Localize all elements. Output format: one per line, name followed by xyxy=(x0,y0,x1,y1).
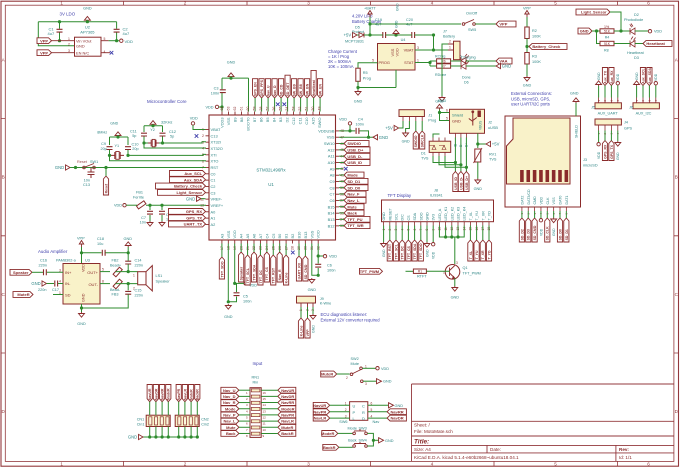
svg-text:TFT_DC: TFT_DC xyxy=(401,246,405,260)
ground J9 xyxy=(310,314,316,319)
svg-text:GND: GND xyxy=(552,228,556,236)
label VDD TFT xyxy=(432,251,436,259)
power GND at Y1 xyxy=(110,122,118,126)
wire q1 emitter xyxy=(454,278,456,286)
svg-text:VDD: VDD xyxy=(539,197,543,205)
label Heartbeat text xyxy=(627,51,645,55)
label VDD J6 AUX_I2C xyxy=(654,73,658,81)
svg-text:A11: A11 xyxy=(328,154,335,159)
wire y2 to XT32O xyxy=(144,143,206,148)
capacitor network CN1 body xyxy=(146,415,170,426)
svg-text:TFT_WR: TFT_WR xyxy=(347,223,363,228)
label J9 xyxy=(320,297,324,301)
svg-text:Reset: Reset xyxy=(77,160,88,164)
label SW1 xyxy=(90,160,98,164)
svg-text:VSS: VSS xyxy=(552,197,556,205)
svg-text:1: 1 xyxy=(60,462,63,467)
svg-text:SD_D1: SD_D1 xyxy=(347,179,361,184)
wire to gnd sw xyxy=(373,439,378,441)
J7 pins xyxy=(448,40,454,50)
svg-text:DAT3/CD: DAT3/CD xyxy=(527,189,531,205)
label R2 xyxy=(532,29,537,33)
pin stub EN xyxy=(52,52,75,54)
junction xyxy=(177,435,180,438)
global label Back xyxy=(221,431,239,437)
vertical global label SD_D1 xyxy=(564,218,569,242)
svg-text:Sheet: /: Sheet: / xyxy=(414,423,431,428)
wire to R1 xyxy=(406,270,414,272)
connector J5 AUX_UART xyxy=(595,103,621,109)
global label Aux_SDA xyxy=(170,177,206,183)
svg-text:3: 3 xyxy=(307,1,310,6)
svg-text:C6: C6 xyxy=(330,198,335,203)
svg-text:Mute: Mute xyxy=(347,204,357,209)
power VDD circle FB1 xyxy=(123,204,126,207)
label VDD GPS xyxy=(597,151,601,159)
label GND microSD xyxy=(552,228,556,236)
wire pin xyxy=(285,244,287,256)
ground microSD xyxy=(551,218,557,223)
svg-text:D3: D3 xyxy=(634,56,639,60)
U1 top pins xyxy=(220,107,323,131)
svg-text:J4: J4 xyxy=(624,121,628,125)
gnd arrow SW6 xyxy=(389,403,394,408)
label GND pin31 xyxy=(308,288,317,292)
svg-text:T_XR: T_XR xyxy=(481,211,485,221)
svg-text:D: D xyxy=(362,416,365,421)
svg-text:2: 2 xyxy=(68,42,70,46)
svg-text:GND: GND xyxy=(186,196,195,201)
ground C8 xyxy=(159,221,165,226)
label VBUS xyxy=(479,120,483,130)
label SW2 xyxy=(351,357,359,361)
svg-text:SD_D0: SD_D0 xyxy=(347,185,361,190)
svg-text:Heartbeat: Heartbeat xyxy=(312,79,316,96)
ground C7 xyxy=(147,221,153,226)
svg-text:CLK: CLK xyxy=(546,197,550,205)
wire rn1 right xyxy=(261,414,278,416)
vertical global label Speaker xyxy=(239,252,244,282)
ground J5 AUX_UART xyxy=(596,81,602,86)
svg-text:VDD: VDD xyxy=(539,228,543,236)
wire pin xyxy=(253,244,255,253)
svg-text:VPP: VPP xyxy=(40,38,48,43)
label D5 xyxy=(355,26,360,30)
label C14 xyxy=(135,259,142,263)
label RChrg xyxy=(435,55,445,59)
svg-text:6: 6 xyxy=(446,109,448,113)
svg-text:Q1: Q1 xyxy=(463,266,468,270)
wire row48 xyxy=(339,130,355,132)
J1 pins xyxy=(403,117,422,122)
svg-text:R4: R4 xyxy=(605,36,610,40)
svg-text:53: 53 xyxy=(292,107,296,111)
svg-text:62: 62 xyxy=(233,107,237,111)
capacitor C2 xyxy=(114,29,120,32)
capacitor C6 xyxy=(315,264,321,267)
U2 pin numbers xyxy=(68,37,106,54)
svg-text:B12: B12 xyxy=(328,223,335,228)
pin stub VOut xyxy=(101,40,109,42)
svg-text:B2: B2 xyxy=(290,234,295,239)
vertical global label SWDIO net xyxy=(413,131,418,149)
label GND J9 xyxy=(312,325,316,333)
wire r3 gnd xyxy=(526,64,528,76)
label C6 xyxy=(327,264,332,268)
svg-text:C2: C2 xyxy=(211,184,216,189)
global label BackR xyxy=(278,431,296,437)
pin numbers U4 xyxy=(372,46,419,63)
svg-text:DAT0: DAT0 xyxy=(559,196,563,205)
capacitor C7 xyxy=(147,211,153,214)
svg-text:13: 13 xyxy=(263,409,267,413)
wire rail to BOOT0 xyxy=(248,78,250,111)
svg-text:Nav: Nav xyxy=(373,420,380,424)
wire c8 stem xyxy=(161,205,163,210)
svg-text:XT32I: XT32I xyxy=(211,140,221,145)
wire C1 top xyxy=(59,22,61,29)
svg-text:Charging: Charging xyxy=(461,56,476,60)
svg-text:Photodiode: Photodiode xyxy=(624,18,643,22)
vertical global label USB_D- net xyxy=(458,172,463,192)
svg-text:54: 54 xyxy=(285,107,289,111)
svg-text:B: B xyxy=(675,175,678,180)
wire sw6 right xyxy=(368,411,387,413)
label C18 xyxy=(97,237,104,241)
svg-text:IN-: IN- xyxy=(65,281,71,286)
svg-text:6: 6 xyxy=(202,159,204,163)
label RDone xyxy=(435,73,446,77)
no-connect top 2 xyxy=(283,103,287,107)
wire sw6 left xyxy=(330,411,350,413)
power GND audio top xyxy=(124,237,133,241)
svg-text:4: 4 xyxy=(431,462,434,467)
svg-text:NavUR: NavUR xyxy=(148,388,152,400)
svg-text:NavUR: NavUR xyxy=(313,403,326,408)
wire fb3 to spk xyxy=(116,283,138,285)
svg-text:60: 60 xyxy=(246,107,250,111)
global label TFT_PU xyxy=(344,216,370,222)
svg-text:T_XL: T_XL xyxy=(469,250,473,259)
svg-text:CMD: CMD xyxy=(533,196,537,205)
global label NavRR sw6 xyxy=(387,409,406,415)
ground between caps xyxy=(393,30,399,35)
speaker LS1 xyxy=(138,266,153,291)
global label NavDR xyxy=(278,393,296,399)
capacitor network CN2 body xyxy=(175,415,199,426)
resistor R7 xyxy=(437,64,451,68)
svg-text:1: 1 xyxy=(60,1,63,6)
wire gnd stem audio xyxy=(127,247,129,253)
wire c19 in xyxy=(370,34,383,36)
wire sw3 out xyxy=(367,433,373,440)
svg-text:T_YU: T_YU xyxy=(475,211,479,221)
wire rn1 left xyxy=(239,389,250,391)
global label Mode xyxy=(221,406,239,412)
svg-text:GND: GND xyxy=(635,72,639,80)
wire d1 b1 xyxy=(433,156,455,163)
label C4 xyxy=(358,118,363,122)
svg-text:SWDIO: SWDIO xyxy=(347,141,361,146)
capacitor C9 xyxy=(107,147,113,150)
junction xyxy=(161,141,164,144)
label Nav xyxy=(373,420,380,424)
junction xyxy=(454,161,457,164)
wire c4 right xyxy=(360,131,369,137)
wire c5 gnd xyxy=(228,297,236,302)
wire pin xyxy=(339,206,344,208)
junction xyxy=(367,136,370,139)
svg-text:58: 58 xyxy=(259,107,263,111)
vertical global label VPP j9 xyxy=(305,318,310,338)
wire shield gnd xyxy=(575,103,577,116)
label GND J1 xyxy=(402,140,410,144)
global label NavLR xyxy=(278,418,296,424)
ground audio top xyxy=(125,242,131,247)
svg-text:C16: C16 xyxy=(40,259,47,263)
wire c10 to y1 xyxy=(127,150,129,155)
svg-text:RTFT: RTFT xyxy=(417,275,427,279)
diode D5 Protect xyxy=(359,33,364,38)
svg-text:VDD: VDD xyxy=(329,255,337,259)
svg-text:Ferrite: Ferrite xyxy=(133,196,144,200)
wire cn top xyxy=(190,402,192,416)
label J4 xyxy=(624,121,628,125)
label 51K in R8 xyxy=(604,42,611,46)
svg-text:5: 5 xyxy=(554,462,557,467)
svg-text:Title:: Title: xyxy=(414,439,429,446)
transistor Q1 TFT_PWM xyxy=(445,265,460,280)
svg-text:Shield: Shield xyxy=(452,113,463,118)
junction xyxy=(142,141,145,144)
wire pin xyxy=(339,225,344,227)
wire c15 gnd xyxy=(82,294,129,308)
svg-text:J5: J5 xyxy=(591,106,595,110)
resistor network RN1 body xyxy=(250,388,261,438)
junction xyxy=(317,274,320,277)
U1 left pins 1-16 xyxy=(200,127,224,227)
wire usb dm down xyxy=(460,138,462,172)
svg-text:GND: GND xyxy=(426,212,430,221)
ground J2 top xyxy=(437,104,443,109)
svg-text:Back: Back xyxy=(347,211,357,216)
wire cn bottom xyxy=(149,427,151,438)
vertical global label UART_RX xyxy=(296,256,301,281)
wire GPS_EN to pin xyxy=(254,98,256,112)
wire pin31 vss xyxy=(312,244,318,276)
svg-text:Bead-: Bead- xyxy=(110,288,121,292)
global label TFT_WR xyxy=(344,223,370,229)
wire c9 top xyxy=(109,137,111,145)
svg-text:J6: J6 xyxy=(629,106,633,110)
wire pin xyxy=(339,193,344,195)
svg-text:TFT_SDO: TFT_SDO xyxy=(419,243,423,259)
svg-text:On/Off: On/Off xyxy=(466,12,478,16)
svg-text:A1: A1 xyxy=(211,216,216,221)
svg-text:4: 4 xyxy=(59,280,61,284)
wire pin xyxy=(259,244,261,256)
vertical global label USB_ID net xyxy=(453,172,458,192)
label VDD sensor xyxy=(654,30,662,34)
svg-text:Aux_TX: Aux_TX xyxy=(603,70,607,84)
svg-text:GPS_RX: GPS_RX xyxy=(186,209,203,214)
wire pin xyxy=(266,244,268,253)
svg-text:GND: GND xyxy=(227,61,236,65)
svg-text:SW_B9: SW_B9 xyxy=(293,84,297,96)
svg-text:C13: C13 xyxy=(83,183,90,187)
wire rn1 right xyxy=(261,389,278,391)
connector J9 K-Wire xyxy=(297,296,316,303)
wire d2 to vdd xyxy=(635,30,648,32)
wire pin xyxy=(339,161,344,163)
svg-text:T_XL: T_XL xyxy=(469,212,473,221)
svg-text:R: R xyxy=(362,410,365,415)
vertical global label TFT_DC net xyxy=(400,240,405,261)
vertical global label TFT_SDA xyxy=(251,252,256,282)
global label Nav_L xyxy=(221,418,239,424)
wire pin32 vdd xyxy=(317,244,319,257)
wire u3 gnd xyxy=(81,304,83,312)
wire tft touch xyxy=(488,226,490,241)
svg-text:GND: GND xyxy=(385,439,394,443)
svg-text:8: 8 xyxy=(102,280,104,284)
global label VPP pin1 xyxy=(37,38,52,44)
svg-text:K-Line: K-Line xyxy=(299,325,303,336)
wire bus to Q1 xyxy=(454,237,456,264)
wire j2 pin6 xyxy=(440,112,450,114)
global label VPP EN xyxy=(37,50,52,56)
svg-text:TFT_PWM: TFT_PWM xyxy=(360,269,380,274)
vertical global label Aux_SCL xyxy=(640,67,645,85)
svg-text:Rin: Rin xyxy=(253,381,259,385)
capacitor C19 xyxy=(383,32,386,38)
wire vss down xyxy=(395,70,397,88)
varistor RV1 xyxy=(474,148,483,163)
svg-text:External 12V converter require: External 12V converter required xyxy=(321,318,381,323)
wire TFT led bus xyxy=(439,226,464,238)
U1 right pins xyxy=(318,128,344,228)
label RTFT xyxy=(417,275,427,279)
ground J1 xyxy=(403,132,409,137)
wire branch heartbeat xyxy=(597,31,601,44)
wire sd gnd xyxy=(553,211,555,218)
svg-text:R3: R3 xyxy=(532,55,537,59)
vertical global label TFT_SCL xyxy=(245,255,250,285)
svg-text:A12: A12 xyxy=(328,147,335,152)
wire y2 right xyxy=(159,142,163,144)
note 3V LDO xyxy=(60,12,76,17)
svg-text:SW6: SW6 xyxy=(339,420,347,424)
label R6 xyxy=(442,60,446,64)
wire pin18 vss xyxy=(227,244,229,302)
svg-text:K-Wire: K-Wire xyxy=(320,302,332,306)
svg-text:1%: 1% xyxy=(604,25,610,29)
svg-text:GND: GND xyxy=(382,212,386,221)
svg-text:C3: C3 xyxy=(214,87,219,91)
junction xyxy=(456,235,459,238)
svg-text:SD_D1: SD_D1 xyxy=(565,229,569,240)
capacitor C13 xyxy=(88,168,95,179)
vertical global label GPS_PPS xyxy=(259,79,264,98)
microSD card J3 body xyxy=(505,116,581,207)
vertical global label SWCLK net xyxy=(420,131,425,149)
wire to c18 xyxy=(82,252,102,254)
wire rn1 left xyxy=(239,420,250,422)
wire vpp to r2 xyxy=(526,17,528,27)
vertical global label Aux_SDA xyxy=(647,67,652,85)
global label ModeR xyxy=(321,431,338,437)
wire reset net xyxy=(70,167,206,169)
svg-text:J8: J8 xyxy=(434,189,438,193)
svg-text:AUX_I2C: AUX_I2C xyxy=(636,112,652,116)
capacitor C3 xyxy=(220,90,226,93)
svg-text:GND: GND xyxy=(502,64,511,69)
svg-text:Battery_Check: Battery_Check xyxy=(532,44,561,49)
svg-text:SD_CLK: SD_CLK xyxy=(546,226,550,240)
label 8MHz xyxy=(97,131,107,135)
wire sw6 right xyxy=(368,417,387,419)
wire bead to VREF+ xyxy=(146,204,206,206)
vertical global label SW_B9 xyxy=(292,79,297,98)
label AUX_I2C xyxy=(636,112,652,116)
label Done xyxy=(462,76,471,80)
svg-text:GND: GND xyxy=(451,296,460,300)
svg-text:SDA: SDA xyxy=(413,212,417,220)
wire sd xyxy=(559,211,561,218)
wire led to gnd xyxy=(466,65,496,67)
svg-text:4: 4 xyxy=(202,147,204,151)
svg-text:11: 11 xyxy=(263,422,266,426)
svg-text:SD_CD: SD_CD xyxy=(280,84,284,96)
wire to reset label xyxy=(105,168,107,177)
svg-text:A9: A9 xyxy=(330,166,335,171)
label GND GPS xyxy=(616,152,620,160)
wire vdd stem xyxy=(349,125,351,131)
label C10 xyxy=(132,142,139,146)
svg-text:C8: C8 xyxy=(330,185,335,190)
svg-text:D2: D2 xyxy=(285,118,290,123)
wire d1 b3 xyxy=(445,156,466,167)
label GND SW2 xyxy=(383,380,392,384)
svg-text:Aux_RX: Aux_RX xyxy=(610,70,614,84)
label GND TFT1 xyxy=(382,249,386,257)
wire tft xyxy=(414,226,416,241)
wire sw6 left xyxy=(330,404,350,406)
label C8 xyxy=(166,213,171,217)
LS1 pin numbers xyxy=(133,274,135,291)
svg-text:NavPR: NavPR xyxy=(281,413,294,418)
junction xyxy=(190,435,193,438)
svg-text:Bead+: Bead+ xyxy=(110,264,122,268)
label J1 xyxy=(428,114,432,118)
wire out- to fb3 xyxy=(100,283,110,285)
svg-text:GND: GND xyxy=(452,119,461,124)
svg-text:LED_A: LED_A xyxy=(438,208,442,220)
svg-text:ModeR: ModeR xyxy=(321,431,334,436)
svg-text:TFT_SCL: TFT_SCL xyxy=(246,267,250,283)
svg-text:ModeR: ModeR xyxy=(167,388,171,400)
wire c10 top xyxy=(127,137,129,145)
capacitor C8 1u xyxy=(159,211,165,214)
svg-text:D/C: D/C xyxy=(401,214,405,221)
wire C2 bottom xyxy=(116,33,118,41)
svg-text:GND: GND xyxy=(224,315,233,319)
global label Aux_SCL xyxy=(170,171,206,177)
svg-text:Id: 1/1: Id: 1/1 xyxy=(619,455,632,460)
microSD pin names xyxy=(520,189,568,205)
junction xyxy=(116,135,119,138)
svg-text:LS1: LS1 xyxy=(156,274,163,278)
